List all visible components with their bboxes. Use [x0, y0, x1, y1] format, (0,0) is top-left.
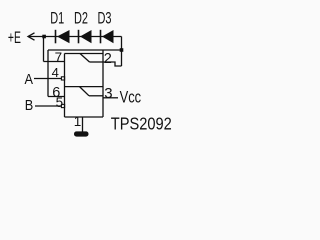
pin 4 enable bubble — [61, 77, 64, 80]
wire node line y50 — [48, 49, 122, 51]
wire pin2 jog — [103, 62, 122, 66]
wire +E drop x43.5 — [43, 37, 45, 62]
svg-text:D2: D2 — [74, 10, 88, 28]
svg-text:A: A — [25, 71, 34, 88]
svg-text:+E: +E — [8, 29, 21, 47]
svg-text:1: 1 — [74, 114, 82, 129]
wire pin 1 down — [82, 117, 84, 132]
svg-text:5: 5 — [56, 95, 64, 110]
svg-text:TPS2092: TPS2092 — [111, 114, 172, 134]
diode D2 — [78, 30, 92, 44]
wire pin 3 Vcc — [103, 97, 118, 99]
svg-text:D1: D1 — [50, 10, 64, 28]
switch S1 inside (pins 7-2) — [80, 54, 103, 63]
pin 5 enable bubble — [61, 104, 64, 107]
svg-text:3: 3 — [104, 85, 112, 102]
node junction dot at +E tap — [42, 35, 46, 39]
diode D3 — [100, 30, 114, 44]
svg-text:D3: D3 — [98, 10, 112, 28]
arrow +E output — [28, 33, 35, 40]
wire pin 7 — [44, 61, 65, 63]
svg-text:7: 7 — [55, 50, 63, 65]
diode D1 — [55, 30, 70, 44]
ground — [74, 131, 89, 136]
wire A to pin 4 — [34, 78, 61, 80]
wire B to pin 5 — [35, 105, 61, 107]
svg-text:B: B — [25, 97, 34, 114]
svg-text:Vcc: Vcc — [120, 87, 142, 106]
wire main top rail — [28, 36, 122, 38]
svg-text:4: 4 — [52, 65, 59, 80]
switch S2 inside (pins 6-3) — [65, 87, 104, 96]
wire pin 6 — [48, 96, 65, 98]
wire left drop x48 to pin6 — [47, 50, 49, 97]
op IC U1 TPS2092 box — [65, 50, 104, 117]
wire D3 output down — [121, 37, 123, 67]
svg-text:2: 2 — [104, 51, 112, 67]
node junction dot at diode output — [120, 48, 124, 52]
